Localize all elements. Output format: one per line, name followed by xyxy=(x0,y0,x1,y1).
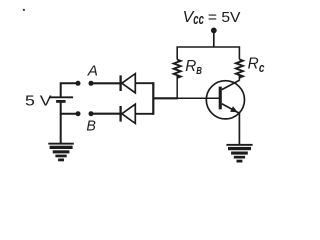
wire base node to transistor base xyxy=(177,97,220,99)
switch B contact left xyxy=(76,111,81,116)
switch A contact left xyxy=(76,81,81,86)
wire junction to base node xyxy=(153,97,178,99)
resistor RC xyxy=(236,59,243,77)
switch A contact right xyxy=(89,81,94,86)
diode D2 triangle xyxy=(122,104,136,123)
svg-text:B: B xyxy=(86,118,96,135)
wire emitter to ground xyxy=(238,113,240,145)
wire switch B to diode D2 xyxy=(91,113,120,115)
stray period mark top-left xyxy=(23,9,25,11)
svg-text:B: B xyxy=(196,66,202,77)
wire RB bottom to base node xyxy=(176,76,178,99)
ground (emitter) xyxy=(226,144,252,163)
svg-text:5 V: 5 V xyxy=(25,92,52,109)
wire battery top to switch A xyxy=(61,83,76,97)
transistor Q1 emitter lead xyxy=(222,104,240,113)
wire battery bottom to ground xyxy=(60,114,62,144)
wire Vcc terminal to rail xyxy=(213,30,215,47)
diode D2 cathode bar xyxy=(119,106,121,122)
ground (battery) xyxy=(48,143,74,162)
diode D1 cathode bar xyxy=(119,75,121,91)
switch B contact right xyxy=(89,111,94,116)
Vcc terminal dot xyxy=(211,28,217,34)
transistor Q1 circle xyxy=(206,81,244,119)
battery positive plate xyxy=(50,96,73,98)
svg-text:R: R xyxy=(185,58,196,75)
diode D1 triangle xyxy=(122,74,136,93)
wire switch A to diode D1 xyxy=(91,82,120,84)
wire battery bottom to switch B xyxy=(61,101,76,113)
wire D2 to junction xyxy=(135,113,153,115)
svg-text:A: A xyxy=(87,63,98,80)
battery negative plate xyxy=(56,100,66,103)
svg-text:Vcc: Vcc xyxy=(183,9,204,28)
transistor Q1 emitter arrowhead xyxy=(230,106,238,112)
wire RC bottom to collector xyxy=(238,75,240,80)
wire top rail with drops to RB and RC xyxy=(177,47,239,60)
svg-text:= 5V: = 5V xyxy=(208,9,241,26)
wire diode junction vertical xyxy=(152,82,154,115)
svg-text:c: c xyxy=(259,60,265,75)
transistor Q1 base bar xyxy=(219,87,222,110)
transistor Q1 collector lead xyxy=(222,80,240,89)
wire D1 to junction xyxy=(135,82,153,84)
resistor RB xyxy=(174,60,181,78)
svg-text:R: R xyxy=(248,56,259,73)
